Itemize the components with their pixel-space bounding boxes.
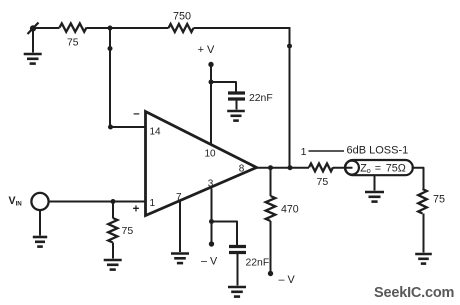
op-amp U1 triangle	[146, 112, 257, 216]
svg-text:750: 750	[173, 11, 191, 23]
svg-text:75: 75	[433, 194, 445, 206]
wire: resistor 750 to feedback corner	[194, 27, 291, 29]
junction dot on feedback wire	[287, 44, 292, 49]
wire: feedback vertical down to output node	[289, 27, 291, 168]
terminal dot -V (470)	[268, 271, 273, 276]
node A junction dot	[108, 26, 113, 31]
callout line pin 1	[309, 150, 345, 152]
resistor 75 (input shunt)	[108, 218, 133, 243]
capacitor C2 22nF	[229, 247, 246, 253]
svg-text:14: 14	[150, 127, 162, 138]
svg-text:22nF: 22nF	[249, 93, 273, 104]
wire: node B to shunt resistor	[112, 202, 114, 219]
terminal dot -V	[209, 241, 214, 246]
junction dot on inverting branch	[108, 46, 113, 51]
node dot feedback tap	[288, 165, 293, 170]
wire: series resistor to attenuator	[333, 167, 353, 169]
svg-text:– V: – V	[201, 256, 218, 268]
arrow mark on top-left corner	[28, 23, 39, 35]
wire: corner to resistor 75	[33, 27, 60, 29]
wire: pin 7 to ground	[179, 201, 181, 253]
svg-text:SeekIC.com: SeekIC.com	[374, 285, 454, 301]
wire: VIN bottom to ground	[39, 210, 41, 235]
wire: +V down to pin 10	[210, 65, 212, 146]
ground (top-left input return)	[24, 54, 42, 64]
wire: VIN to plus input	[49, 201, 145, 203]
terminal dot +V	[208, 62, 213, 67]
attenuator block 6dB LOSS-1	[345, 160, 413, 175]
svg-text:–: –	[133, 108, 140, 120]
node dot at inverting corner	[108, 125, 113, 130]
wire: C1 to ground	[236, 99, 238, 110]
svg-text:+ V: + V	[198, 44, 215, 56]
svg-text:– V: – V	[279, 274, 296, 286]
ground (termination)	[415, 254, 432, 264]
wire: node A down to inverting input corner	[109, 28, 111, 127]
wire: attenuator to termination resistor	[412, 168, 424, 189]
node dot output	[268, 165, 273, 170]
ground (attenuator)	[365, 192, 384, 202]
wire: +V rail to capacitor C1	[211, 82, 236, 92]
ground (C1)	[227, 111, 245, 121]
svg-text:6dB LOSS-1: 6dB LOSS-1	[347, 145, 409, 157]
wire: attenuator to ground	[374, 176, 376, 191]
svg-text:75: 75	[122, 225, 134, 237]
ground (C2)	[228, 287, 246, 297]
wire: -V rail to capacitor C2	[212, 222, 238, 246]
wire: op-amp output to series resistor	[254, 167, 309, 169]
wire: C2 to ground	[237, 253, 239, 286]
ground (input shunt)	[104, 260, 122, 270]
wire: resistor 470 to -V terminal	[270, 221, 272, 274]
svg-text:3: 3	[208, 179, 214, 190]
wire: node A to resistor 750	[110, 27, 169, 29]
wire: pin 3 down to -V terminal	[211, 189, 213, 245]
junction dot -V rail	[209, 219, 214, 224]
capacitor C1 22nF	[228, 93, 245, 99]
svg-text:1: 1	[150, 198, 156, 209]
resistor 750 (feedback)	[169, 11, 194, 32]
wire: output node down to resistor 470	[270, 168, 272, 196]
resistor 75 (termination)	[418, 189, 445, 214]
wire: resistor 75 to node A	[87, 27, 111, 29]
resistor 75 (top-left)	[60, 23, 87, 48]
ground (pin 7)	[171, 254, 189, 264]
resistor 470	[266, 196, 299, 221]
svg-text:75: 75	[317, 176, 329, 188]
svg-text:10: 10	[205, 149, 217, 160]
wire: termination resistor to ground	[423, 214, 425, 253]
svg-text:470: 470	[281, 203, 299, 215]
junction dot +V rail	[209, 80, 214, 85]
node B junction dot	[111, 199, 116, 204]
wire: shunt resistor to ground	[112, 243, 114, 259]
svg-text:+: +	[133, 204, 140, 216]
resistor 75 (output series)	[309, 164, 333, 189]
wire: corner to op-amp inverting input	[111, 126, 146, 128]
source VIN circle	[31, 193, 48, 210]
svg-text:1: 1	[301, 146, 307, 158]
wire: top-left corner vertical to ground	[32, 28, 34, 53]
svg-text:8: 8	[239, 164, 245, 175]
ground (VIN return)	[33, 237, 47, 247]
svg-text:22nF: 22nF	[246, 258, 270, 269]
svg-text:75: 75	[67, 38, 79, 49]
